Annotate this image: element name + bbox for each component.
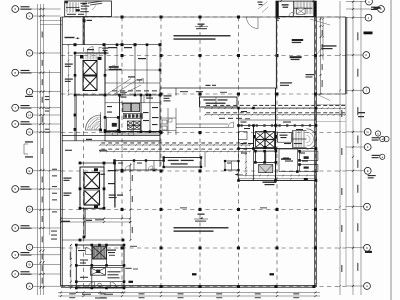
- outer wall right upper: [344, 17, 346, 94]
- top-left block stair unit: [65, 1, 112, 17]
- wall row y44.7: [62, 44, 160, 46]
- bottom-left block entry/stair unit: [76, 245, 124, 288]
- sheet border right: [390, 0, 392, 300]
- right tag row 2: [372, 155, 380, 156]
- door arc top wall: [247, 17, 259, 29]
- right facade line: [345, 94, 347, 287]
- grid horizontal dashed lines: [61, 16, 346, 18]
- right bold label C: [365, 251, 372, 253]
- svg-text:E: E: [367, 169, 369, 173]
- left leader stubs: [40, 19, 62, 21]
- outer wall bottom: [61, 285, 316, 287]
- left main bubbles: [12, 6, 19, 13]
- svg-text:E: E: [28, 169, 30, 173]
- column squares: [121, 16, 124, 19]
- left dimension lines: [37, 4, 39, 295]
- right inner dim text: [341, 110, 342, 117]
- toilet and shaft block: [105, 95, 160, 141]
- wall step right: [316, 93, 345, 95]
- svg-text:H: H: [28, 113, 30, 117]
- right main bubbles: [366, 0, 373, 5]
- right tag row 3: [368, 175, 376, 176]
- wall above bottom-left block: [62, 239, 123, 241]
- dim band under lower core: [61, 218, 130, 220]
- lower-left core with elevators: [80, 162, 115, 164]
- hall edge compartment: [225, 161, 239, 170]
- quarter-round ramp: [86, 115, 101, 130]
- terrace lines: [316, 104, 345, 106]
- right dimension lines: [352, 1, 354, 295]
- outer wall left: [60, 17, 62, 287]
- upper dim band: [205, 107, 345, 109]
- right mid annotations: [292, 39, 304, 41]
- right tag row 1: [372, 137, 380, 138]
- svg-text:F: F: [367, 145, 369, 149]
- corridor walls mid: [160, 87, 277, 89]
- vert dim right of lower core: [130, 163, 132, 240]
- main stair curved end: [291, 131, 293, 148]
- dim ticks inside upper core: [68, 45, 70, 95]
- scattered dim texts: [120, 92, 127, 93]
- bottom-left dims below: [76, 292, 124, 294]
- right bold label 2: [374, 7, 381, 9]
- upper room label box: [200, 97, 238, 107]
- svg-text:A: A: [366, 284, 368, 288]
- top-right dim drops: [320, 18, 322, 95]
- corridor below upper core: [62, 135, 160, 137]
- wall below top-left block: [82, 17, 84, 45]
- corridor y124: [176, 123, 228, 125]
- extra tag circle G: [375, 131, 380, 136]
- grid vertical dashed lines: [83, 17, 85, 287]
- room labels x163: [164, 95, 172, 96]
- lower dim band: [100, 144, 250, 146]
- svg-text:B: B: [28, 263, 30, 267]
- lower room label box: [164, 158, 201, 168]
- right bold label 1: [364, 32, 373, 35]
- svg-text:K: K: [365, 53, 367, 57]
- bottom-left dim left: [70, 245, 72, 288]
- bottom small marks: [192, 273, 197, 275]
- svg-text:A: A: [28, 284, 30, 288]
- svg-text:K: K: [28, 51, 30, 55]
- bottom dimension lines: [58, 292, 320, 294]
- lower hall note: [174, 227, 229, 229]
- left 8400 labels: [25, 141, 33, 142]
- top-left slanted note: [88, 0, 104, 5]
- upper hall note: [174, 35, 231, 37]
- top-right block stair unit: [276, 1, 316, 16]
- outer wall top edge: [62, 16, 345, 18]
- upper-left core with elevators: [75, 53, 105, 95]
- left secondary bubbles: [26, 13, 32, 19]
- compartment band above lower hall: [115, 160, 164, 162]
- central-right core: [239, 108, 317, 181]
- right side 8400 label: [358, 112, 365, 113]
- outer wall right lower: [314, 17, 316, 287]
